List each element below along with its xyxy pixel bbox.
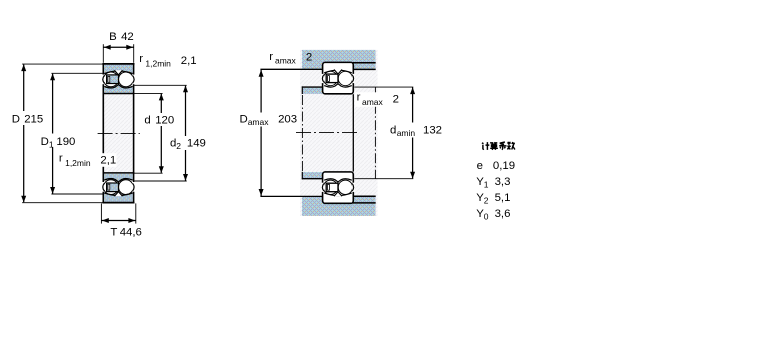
housing band bottom edge right top xyxy=(353,68,376,70)
svg-text:2: 2 xyxy=(484,196,489,206)
svg-text:1: 1 xyxy=(49,139,54,149)
dimension damin 132 xyxy=(354,86,413,88)
inner raceway line xyxy=(104,85,133,88)
svg-text:2: 2 xyxy=(306,51,312,63)
ball right xyxy=(338,71,352,85)
dimension d 120 xyxy=(134,92,162,94)
svg-text:42: 42 xyxy=(121,31,134,43)
label ramax 2 lower xyxy=(355,92,401,107)
housing bore line right bottom xyxy=(353,202,376,204)
right side face upper xyxy=(133,63,135,75)
svg-text:amax: amax xyxy=(362,97,384,107)
svg-text:D: D xyxy=(240,114,248,126)
svg-text:2,1: 2,1 xyxy=(181,55,197,67)
left recess gap xyxy=(321,74,324,83)
svg-text:3,6: 3,6 xyxy=(495,208,511,220)
svg-text:amin: amin xyxy=(397,128,416,138)
svg-text:D: D xyxy=(12,113,20,125)
dimension D 215 xyxy=(22,63,102,65)
notch fill xyxy=(334,70,342,75)
svg-text:d: d xyxy=(144,115,150,127)
ball bulge arcs xyxy=(103,75,105,83)
housing bore line right top xyxy=(353,62,376,64)
svg-text:5,1: 5,1 xyxy=(495,192,511,204)
ball left xyxy=(323,71,337,85)
notch outline xyxy=(114,70,122,75)
svg-text:1,2min: 1,2min xyxy=(65,158,91,168)
cage section xyxy=(107,75,119,84)
coefficient table xyxy=(476,142,515,222)
svg-text:44,6: 44,6 xyxy=(120,226,142,238)
outer raceway arc xyxy=(324,70,352,73)
face recess gaps over side lines xyxy=(102,75,105,84)
left side face lower xyxy=(102,192,104,204)
inner ring section fill xyxy=(104,85,133,93)
section hatch block xyxy=(300,50,378,216)
housing shoulder line bottom / Damax ext xyxy=(260,195,323,197)
ball right row xyxy=(119,72,134,87)
inner ring white xyxy=(324,84,352,93)
svg-text:1: 1 xyxy=(484,179,489,189)
left side face upper xyxy=(102,63,104,75)
cage section xyxy=(326,74,338,83)
svg-text:203: 203 xyxy=(278,114,297,126)
svg-text:D: D xyxy=(41,136,49,148)
svg-text:T: T xyxy=(110,226,117,238)
right side face lower xyxy=(133,192,135,204)
dimension Damax 203 xyxy=(260,70,262,113)
svg-text:r: r xyxy=(59,153,63,165)
cage slot xyxy=(108,76,110,82)
housing edge dash line xyxy=(374,87,376,178)
svg-text:e: e xyxy=(477,160,483,172)
svg-text:d: d xyxy=(390,124,396,136)
svg-text:215: 215 xyxy=(24,113,43,125)
svg-text:0: 0 xyxy=(484,212,489,222)
cage slot xyxy=(328,76,330,82)
ball bulge left xyxy=(322,75,323,83)
right figure axis centerline xyxy=(296,132,360,134)
right side face middle xyxy=(133,84,135,182)
title 计算系数 xyxy=(482,142,489,150)
shaft shoulder bottom line xyxy=(302,178,323,180)
shaft shoulder top xyxy=(303,88,323,94)
housing band top edge right bottom xyxy=(353,195,376,197)
top ring section (outer ring, balls, cage, inner ring) xyxy=(104,65,134,93)
inner ring bore line bottom section xyxy=(103,172,135,174)
dimension d2 149 xyxy=(134,84,186,86)
bearing top box (simplified section) xyxy=(323,62,354,93)
shaft shoulder bottom xyxy=(303,172,323,178)
ball bulge right xyxy=(352,75,353,83)
svg-text:132: 132 xyxy=(423,124,442,136)
bore region hatch xyxy=(104,94,132,172)
svg-text:149: 149 xyxy=(187,138,206,150)
inner raceway line xyxy=(324,84,352,87)
left figure: bearing cross-section xyxy=(11,31,207,239)
bearing bottom box (mirrored) xyxy=(323,172,354,203)
bottom ring section (mirrored) xyxy=(104,174,134,202)
svg-text:r: r xyxy=(139,53,143,65)
outer raceway arc xyxy=(104,71,133,74)
svg-text:2: 2 xyxy=(393,93,399,105)
svg-text:2: 2 xyxy=(176,141,181,151)
outer ring white xyxy=(324,63,352,73)
shaft shoulder left face top xyxy=(301,86,303,94)
svg-text:B: B xyxy=(109,31,117,43)
dimension T 44,6 xyxy=(100,203,102,223)
right recess gap xyxy=(352,74,355,83)
bearing top edge (OD) xyxy=(102,63,134,65)
shaft break line left xyxy=(301,95,303,171)
svg-text:amax: amax xyxy=(248,117,270,127)
svg-text:190: 190 xyxy=(56,136,75,148)
dimension D1 190 xyxy=(51,72,102,74)
dimension B 42 xyxy=(102,44,104,63)
housing shoulder line top / Damax ext xyxy=(260,68,323,70)
shaft shoulder left face bottom xyxy=(301,172,303,180)
left figure axis centerline xyxy=(98,132,140,134)
ball left row xyxy=(104,72,119,87)
svg-text:120: 120 xyxy=(155,115,174,127)
housing section bottom xyxy=(302,197,376,216)
svg-text:amax: amax xyxy=(275,55,297,65)
svg-text:3,3: 3,3 xyxy=(495,176,511,188)
shaft shoulder top line xyxy=(302,86,323,88)
outer ring section fill xyxy=(104,65,133,74)
raceway gap notch xyxy=(114,70,122,75)
right figure: mounting/abutment drawing xyxy=(238,50,443,216)
inner ring bore line top section xyxy=(103,93,135,95)
svg-text:r: r xyxy=(269,51,273,63)
svg-text:r: r xyxy=(357,92,361,104)
housing section top xyxy=(302,50,376,69)
svg-text:2,1: 2,1 xyxy=(100,154,116,166)
shaft end face line xyxy=(352,94,354,171)
bearing bottom edge (OD) xyxy=(102,202,134,204)
svg-text:0,19: 0,19 xyxy=(493,160,515,172)
left side face middle xyxy=(102,84,104,182)
raceway notch xyxy=(334,70,342,75)
svg-text:1,2min: 1,2min xyxy=(145,59,171,69)
